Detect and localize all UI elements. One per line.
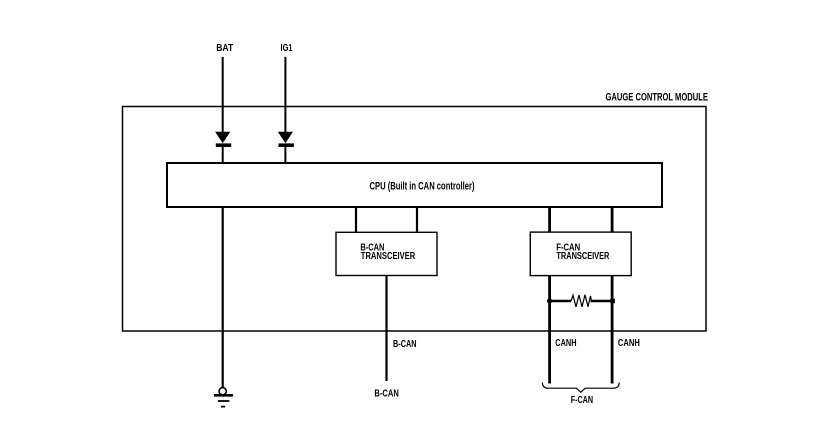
junction dot left (resistor) [547,298,552,303]
label BAT [216,42,233,54]
CPU box [167,163,662,207]
F-CAN transceiver box [530,232,631,276]
svg-text:B-CAN: B-CAN [374,388,399,400]
wire CPU to B-CAN transceiver right [416,207,418,233]
B-CAN transceiver box [336,232,437,275]
label GAUGE CONTROL MODULE [606,92,709,104]
svg-text:CANH: CANH [555,338,576,349]
wire IG1 vertical (top to diode D2) [284,57,286,133]
label CPU (Built in CAN controller) [370,180,475,192]
label B-CAN TRANSCEIVER [360,242,415,262]
svg-text:GAUGE CONTROL MODULE: GAUGE CONTROL MODULE [606,92,709,104]
wire CANH left (F-CAN transceiver down) [548,276,551,384]
svg-text:B-CAN: B-CAN [393,339,417,350]
label IG1 [281,42,293,54]
svg-text:IG1: IG1 [281,42,293,54]
wire BAT below CPU to ground [222,207,224,387]
diode D2 (IG1) [278,132,294,147]
label F-CAN TRANSCEIVER [556,242,610,262]
label CANH right [618,338,640,349]
ground G1 [214,388,233,407]
junction dot right (resistor) [610,299,615,304]
svg-text:BAT: BAT [216,42,233,54]
resistor R (terminating, between CANH lines) [550,295,613,307]
wire CPU to B-CAN transceiver left [355,207,357,233]
label CANH left [555,338,576,349]
svg-text:TRANSCEIVER: TRANSCEIVER [361,251,416,262]
label F-CAN [571,395,593,406]
svg-text:CANH: CANH [618,338,640,349]
wire diode D2 to CPU [284,147,286,163]
wire CANH right (F-CAN transceiver down) [611,276,614,384]
svg-text:TRANSCEIVER: TRANSCEIVER [556,251,610,262]
wire CPU to F-CAN transceiver right [611,207,614,233]
svg-text:CPU (Built in CAN controller): CPU (Built in CAN controller) [370,180,475,192]
gauge control module box [123,107,707,332]
label B-CAN (outer, bottom) [374,388,399,400]
label B-CAN (inner, below module border) [393,339,417,350]
diode D1 (BAT) [215,132,231,147]
wire CPU to F-CAN transceiver left [548,207,551,233]
svg-text:F-CAN: F-CAN [571,395,593,406]
F-CAN bus bracket [542,383,619,393]
wire B-CAN transceiver output [385,276,387,382]
wire BAT vertical (top to diode D1) [222,57,224,133]
wire diode D1 to CPU [222,147,224,163]
